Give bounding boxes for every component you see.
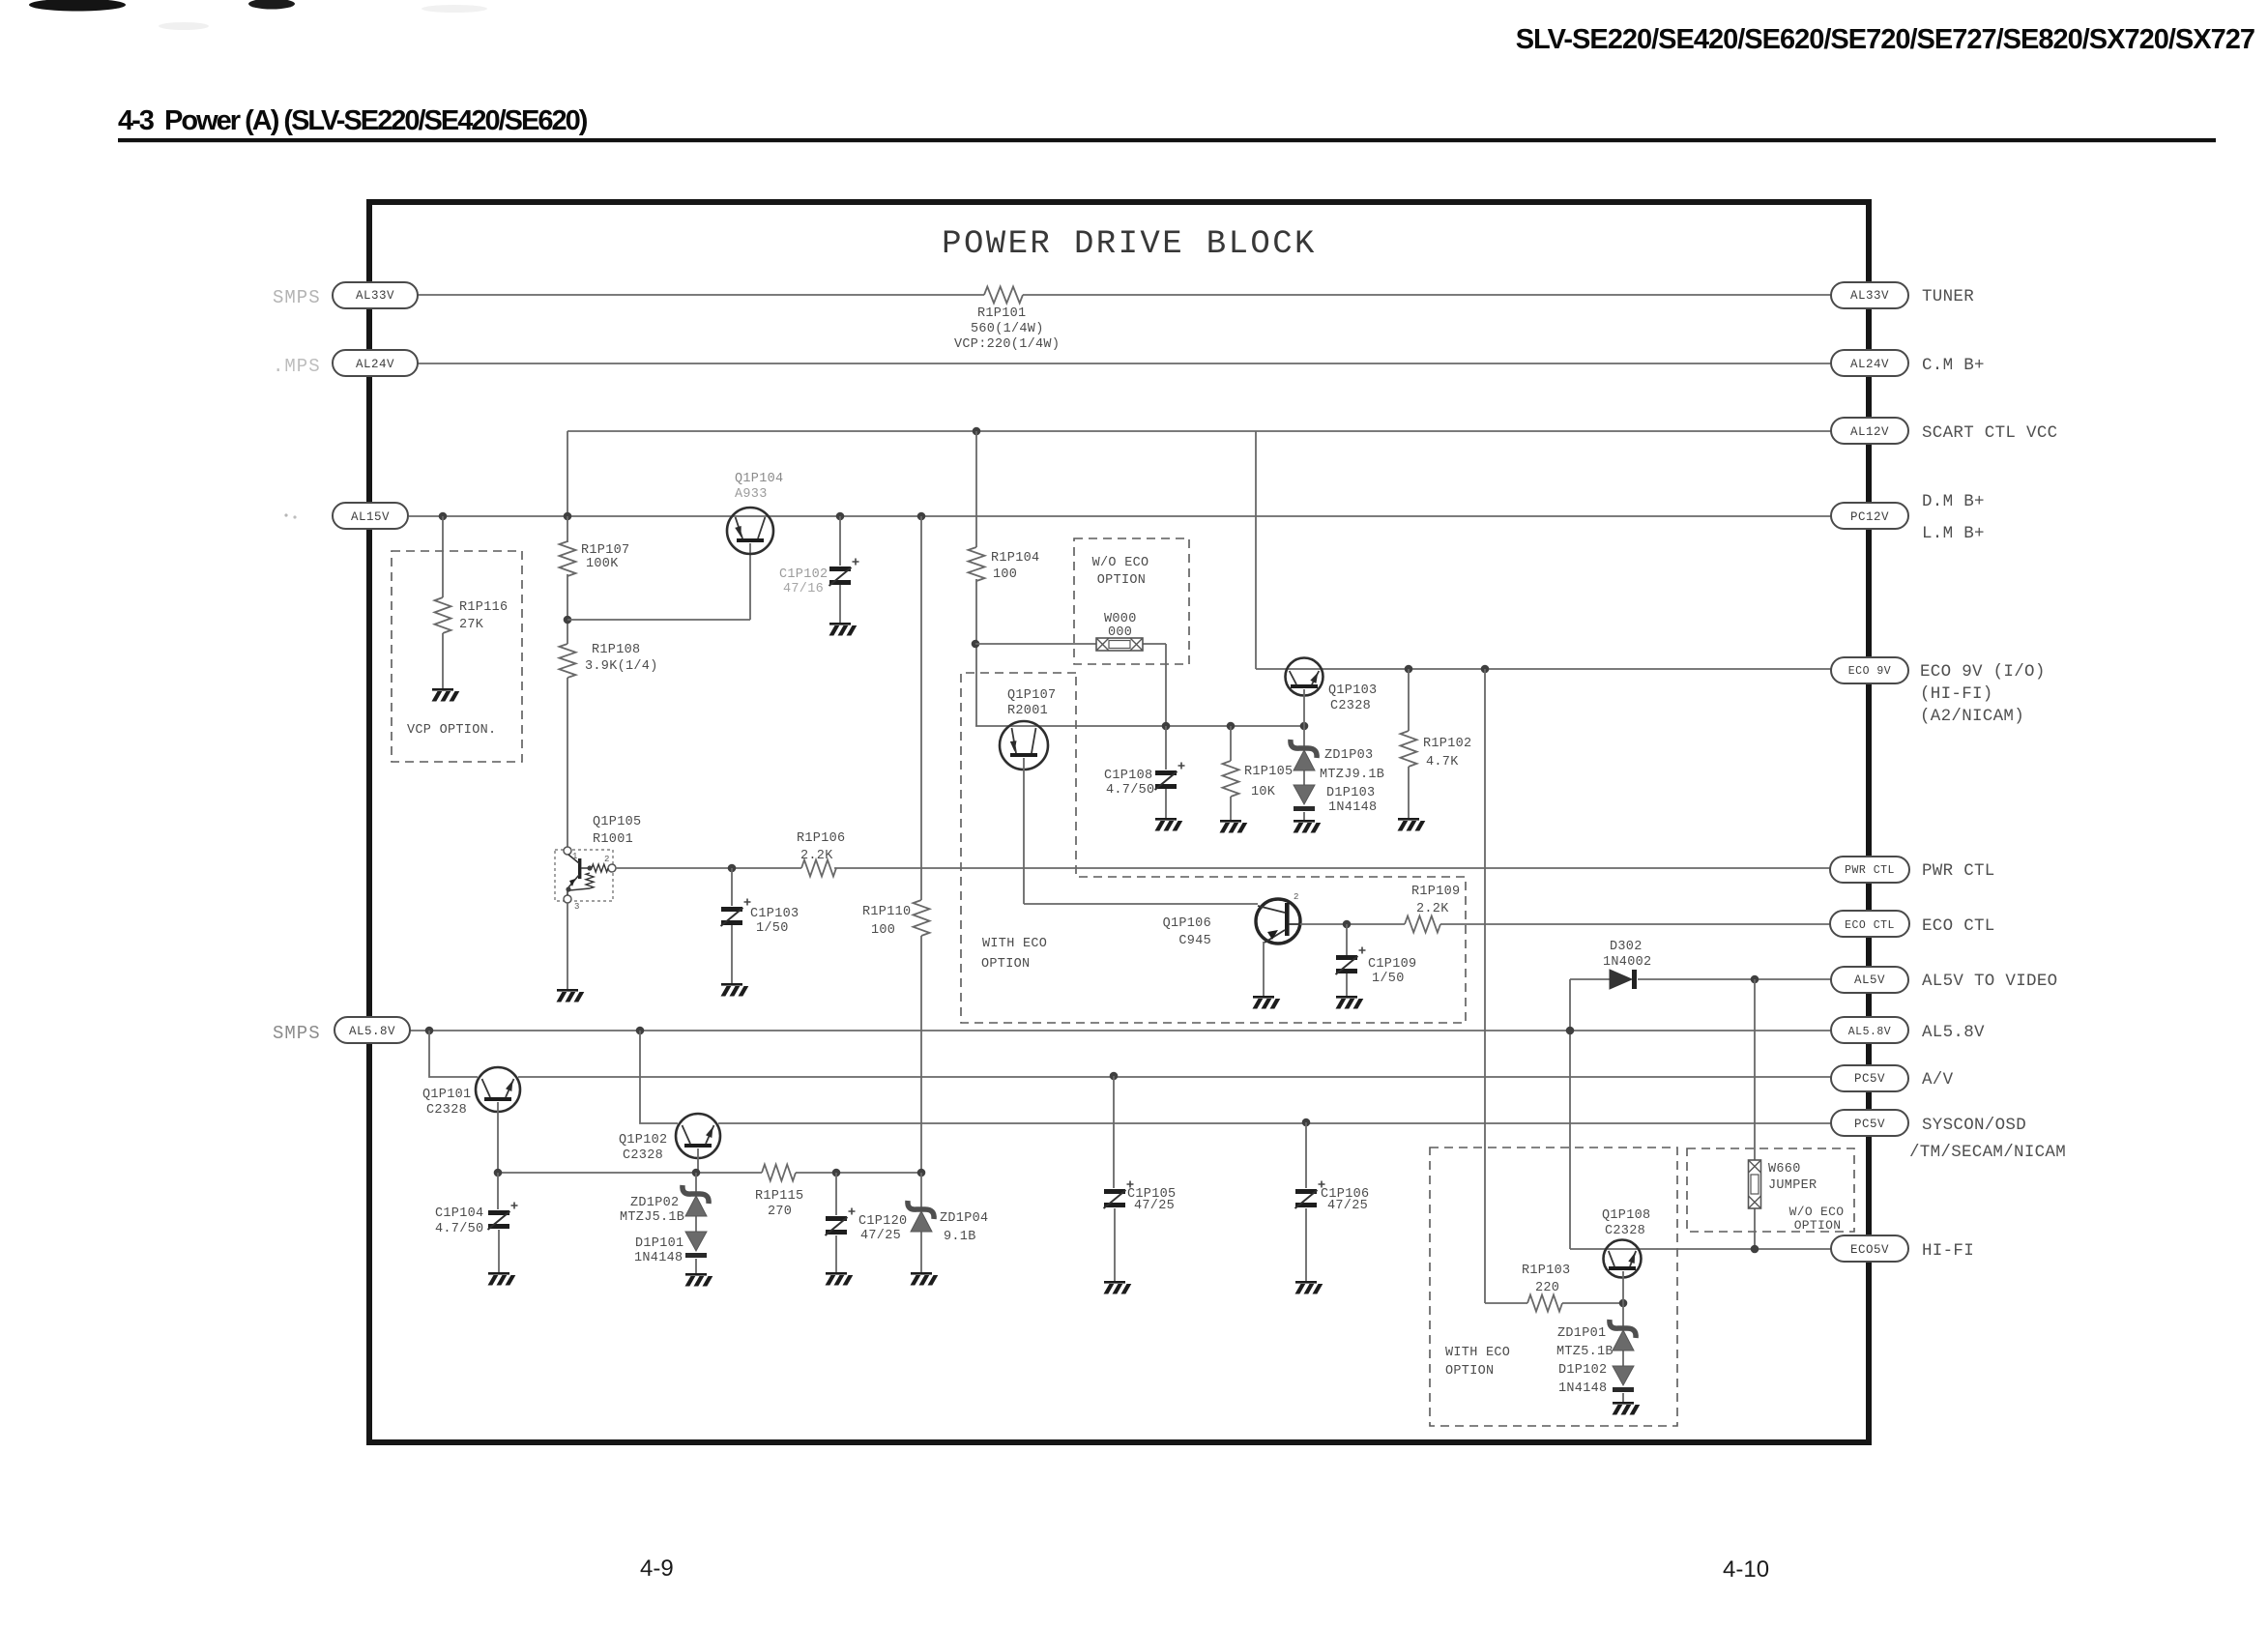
capacitor C1P104 4.7/50 xyxy=(435,1203,518,1237)
svg-text:ZD1P04: ZD1P04 xyxy=(940,1211,988,1226)
connector AL15V (left) xyxy=(333,503,408,529)
svg-text:4.7/50: 4.7/50 xyxy=(1106,783,1154,798)
connector PC5V + A/V xyxy=(1831,1065,1954,1091)
svg-text:R1P108: R1P108 xyxy=(592,643,640,657)
wire ZD1P02 branch xyxy=(695,1173,697,1192)
svg-text:AL5.8V: AL5.8V xyxy=(1848,1026,1891,1038)
wire R1P116 branch xyxy=(442,516,444,597)
svg-text:AL5V: AL5V xyxy=(1854,973,1885,987)
ground (C1P104) xyxy=(488,1272,516,1286)
svg-text:HI-FI: HI-FI xyxy=(1922,1241,1974,1261)
wire SYSCON PC5V row xyxy=(718,1122,1831,1124)
ground (D1P103) xyxy=(1294,820,1322,833)
svg-text:C1P102: C1P102 xyxy=(779,567,828,582)
node AL5.8V junctions xyxy=(425,1027,1575,1035)
transistor Q1P104 (PNP A933) xyxy=(727,472,783,554)
connector AL5.8V (left) xyxy=(334,1017,410,1043)
ground (C1P106) xyxy=(1295,1281,1323,1294)
svg-text:W000: W000 xyxy=(1104,612,1137,626)
svg-text:MTZ5.1B: MTZ5.1B xyxy=(1556,1345,1614,1359)
svg-text:1: 1 xyxy=(572,852,578,861)
svg-text:D1P102: D1P102 xyxy=(1558,1363,1607,1378)
svg-text:A933: A933 xyxy=(735,487,768,502)
svg-text:Q1P101: Q1P101 xyxy=(422,1088,471,1102)
wire Q1P108 base stub xyxy=(1622,1271,1624,1303)
node AL12V junction xyxy=(973,427,981,436)
schematic border frame xyxy=(369,202,1869,1442)
svg-text:WITH ECO: WITH ECO xyxy=(1445,1346,1510,1360)
dashed box W/O ECO OPTION (right) xyxy=(1687,1148,1854,1233)
svg-text:ECO 9V (I/O): ECO 9V (I/O) xyxy=(1920,662,2046,682)
svg-text:AL15V: AL15V xyxy=(351,510,390,524)
svg-text:AL5V TO VIDEO: AL5V TO VIDEO xyxy=(1922,972,2057,991)
wire AL24V rail xyxy=(410,363,1831,364)
svg-text:1N4148: 1N4148 xyxy=(1558,1381,1607,1396)
svg-text:3.9K(1/4): 3.9K(1/4) xyxy=(585,659,658,674)
svg-text:C2328: C2328 xyxy=(1605,1224,1645,1238)
left faint marks (AL15V) xyxy=(284,513,296,518)
wire Q1P101 collector xyxy=(429,1031,478,1077)
svg-text:SYSCON/OSD: SYSCON/OSD xyxy=(1922,1116,2026,1135)
ground (C1P120) xyxy=(826,1272,854,1286)
dashed box VCP OPTION xyxy=(392,551,522,762)
svg-text:4.7/50: 4.7/50 xyxy=(435,1222,483,1236)
svg-text:C1P120: C1P120 xyxy=(858,1214,907,1229)
node SYSCON junction (C1P106) xyxy=(1302,1119,1311,1127)
resistor R1P105 10K xyxy=(1223,761,1294,799)
node Q1P108 base junction xyxy=(1619,1299,1628,1308)
ground (R1P102) xyxy=(1398,818,1426,831)
resistor R1P107 100K xyxy=(560,541,630,576)
svg-text:10K: 10K xyxy=(1251,785,1276,799)
connector AL33V (left) xyxy=(333,282,418,308)
svg-text:MTZJ5.1B: MTZJ5.1B xyxy=(620,1210,684,1225)
connector AL24V (left) xyxy=(333,350,418,376)
wire C1P106 branch xyxy=(1305,1122,1307,1188)
zener ZD1P04 9.1B xyxy=(908,1201,989,1244)
svg-text:AL12V: AL12V xyxy=(1850,425,1889,439)
resistor R1P108 3.9K xyxy=(560,643,658,678)
resistor R1P109 2.2K xyxy=(1405,885,1460,933)
svg-text:C2328: C2328 xyxy=(426,1103,467,1118)
svg-text:R1001: R1001 xyxy=(593,832,633,847)
wire ECO5V row xyxy=(1570,1248,1831,1250)
transistor Q1P103 (NPN C2328) xyxy=(1286,658,1378,714)
header underline rule xyxy=(118,138,2216,142)
svg-text:ZD1P02: ZD1P02 xyxy=(630,1196,679,1210)
diode D1P101 1N4148 xyxy=(634,1232,707,1265)
svg-text:AL33V: AL33V xyxy=(1850,289,1889,303)
svg-text:2.2K: 2.2K xyxy=(800,849,833,863)
svg-text:4-9: 4-9 xyxy=(640,1555,674,1582)
diode D302 1N4002 xyxy=(1603,940,1651,989)
wire AL12V drop to AL15V node xyxy=(567,431,568,516)
transistor Q1P101 (NPN C2328) xyxy=(422,1067,520,1118)
wire C1P102 branch xyxy=(839,516,841,566)
resistor R1P106 2.2K xyxy=(797,831,845,877)
svg-text:(HI-FI): (HI-FI) xyxy=(1920,684,1993,704)
node ECO9V junctions xyxy=(1405,665,1490,674)
wire Q1P105 emitter to ground xyxy=(567,903,568,989)
svg-text:ZD1P03: ZD1P03 xyxy=(1324,748,1373,763)
svg-text:Q1P105: Q1P105 xyxy=(593,815,641,829)
resistor R1P101 xyxy=(954,287,1060,353)
svg-text:Q1P108: Q1P108 xyxy=(1602,1208,1650,1223)
zener ZD1P02 MTZJ5.1B xyxy=(620,1185,709,1225)
node 9V drive junctions xyxy=(1162,722,1309,731)
ground (R1P105) xyxy=(1220,820,1248,833)
svg-text:ECO CTL: ECO CTL xyxy=(1845,919,1895,932)
capacitor C1P106 47/25 xyxy=(1295,1181,1370,1214)
svg-text:560(1/4W): 560(1/4W) xyxy=(971,322,1044,336)
resistor R1P102 4.7K xyxy=(1401,731,1472,770)
svg-text:C1P103: C1P103 xyxy=(750,907,799,921)
capacitor C1P109 1/50 xyxy=(1336,947,1417,987)
capacitor C1P108 4.7/50 xyxy=(1104,763,1185,799)
svg-text:R1P104: R1P104 xyxy=(991,551,1039,566)
svg-text:C.M B+: C.M B+ xyxy=(1922,356,1985,375)
svg-text:R1P110: R1P110 xyxy=(862,905,911,919)
svg-text:Q1P107: Q1P107 xyxy=(1007,688,1056,703)
connector AL24V (right) + C.M B+ xyxy=(1831,350,1985,376)
wire C1P108 branch xyxy=(1165,726,1167,770)
svg-text:D1P103: D1P103 xyxy=(1326,786,1375,800)
svg-text:R1P116: R1P116 xyxy=(459,600,508,615)
svg-text:/TM/SECAM/NICAM: /TM/SECAM/NICAM xyxy=(1909,1143,2066,1162)
transistor Q1P106 (NPN C945) xyxy=(1163,892,1300,948)
svg-text:9.1B: 9.1B xyxy=(944,1230,976,1244)
svg-text:.MPS: .MPS xyxy=(273,356,321,377)
svg-text:PC5V: PC5V xyxy=(1854,1118,1885,1131)
node A/V junction (C1P105) xyxy=(1110,1072,1119,1081)
svg-text:100: 100 xyxy=(993,567,1017,582)
svg-text:W/O ECO: W/O ECO xyxy=(1789,1205,1845,1219)
svg-text:1N4002: 1N4002 xyxy=(1603,955,1651,970)
svg-text:100K: 100K xyxy=(586,557,619,571)
ground (C1P103) xyxy=(721,983,749,997)
wire Q1P106 emitter to ground xyxy=(1263,942,1265,996)
wire C1P104 branch xyxy=(497,1173,499,1209)
node AL5V junction xyxy=(1751,975,1759,984)
svg-text:(A2/NICAM): (A2/NICAM) xyxy=(1920,707,2024,726)
ground (D1P101) xyxy=(685,1273,713,1287)
svg-text:SMPS: SMPS xyxy=(273,287,321,308)
svg-text:ECO CTL: ECO CTL xyxy=(1922,916,1995,936)
svg-text:47/25: 47/25 xyxy=(860,1229,901,1243)
svg-text:A/V: A/V xyxy=(1922,1070,1954,1090)
svg-text:SLV-SE220/SE420/SE620/SE720/SE: SLV-SE220/SE420/SE620/SE720/SE727/SE820/… xyxy=(1516,24,2254,55)
wire base bias row y=1213 xyxy=(498,1172,762,1174)
svg-text:D302: D302 xyxy=(1610,940,1643,954)
svg-text:PC5V: PC5V xyxy=(1854,1072,1885,1086)
svg-text:C945: C945 xyxy=(1178,934,1211,948)
svg-text:R1P105: R1P105 xyxy=(1244,765,1293,779)
svg-text:OPTION: OPTION xyxy=(1445,1364,1494,1379)
ground (C1P102) xyxy=(829,623,858,636)
connector ECO5V + HI-FI xyxy=(1831,1235,1974,1262)
wire Q1P102 collector xyxy=(640,1031,678,1123)
node R1P107/R1P108 junction xyxy=(564,616,572,625)
svg-text:MTZJ9.1B: MTZJ9.1B xyxy=(1320,768,1384,782)
svg-text:AL5.8V: AL5.8V xyxy=(349,1025,395,1038)
wire R1P104 column xyxy=(975,431,977,547)
wire R1P102 branch xyxy=(1408,669,1410,731)
connector AL5V + AL5V TO VIDEO xyxy=(1831,967,2057,993)
svg-text:1/50: 1/50 xyxy=(756,921,789,936)
svg-text:R1P109: R1P109 xyxy=(1411,885,1460,899)
wire Q1P102 base stub xyxy=(697,1148,699,1173)
zener ZD1P01 MTZ5.1B xyxy=(1556,1320,1636,1359)
svg-text:VCP OPTION.: VCP OPTION. xyxy=(407,723,496,738)
node PWR CTL junction (C1P103) xyxy=(728,864,737,873)
ground (ZD1P04) xyxy=(911,1272,939,1286)
wire ZD1P04 branch xyxy=(920,1173,922,1207)
svg-text:AL24V: AL24V xyxy=(1850,358,1889,371)
ground (R1P116) xyxy=(432,688,460,702)
resistor R1P110 100 xyxy=(862,900,930,938)
svg-text:W/O ECO: W/O ECO xyxy=(1092,556,1149,570)
wire R1P107/R1P108 column xyxy=(567,516,568,542)
svg-text:2: 2 xyxy=(1294,892,1299,902)
dashed box WITH ECO OPTION (middle, L-shaped) xyxy=(961,673,1466,1023)
svg-text:OPTION: OPTION xyxy=(981,957,1030,972)
svg-text:OPTION: OPTION xyxy=(1794,1218,1842,1233)
svg-text:SMPS: SMPS xyxy=(273,1023,321,1044)
svg-text:PWR CTL: PWR CTL xyxy=(1922,861,1995,881)
svg-text:R1P101: R1P101 xyxy=(977,306,1026,321)
svg-text:R1P115: R1P115 xyxy=(755,1189,803,1204)
svg-text:4-10: 4-10 xyxy=(1723,1556,1769,1583)
wire Q1P103 base stub xyxy=(1303,689,1305,726)
svg-text:R1P103: R1P103 xyxy=(1522,1264,1570,1278)
wire AL12V rail xyxy=(567,430,1831,432)
svg-text:C1P104: C1P104 xyxy=(435,1206,483,1221)
svg-text:Q1P106: Q1P106 xyxy=(1163,916,1211,931)
transistor Q1P102 (NPN C2328) xyxy=(619,1114,720,1163)
transistor Q1P108 (NPN C2328) xyxy=(1602,1208,1650,1278)
node ECO CTL junction (C1P109) xyxy=(1343,920,1352,929)
wire C1P120 branch xyxy=(835,1173,837,1215)
connector PC5V + SYSCON/OSD xyxy=(1831,1110,2066,1162)
svg-text:AL24V: AL24V xyxy=(356,358,394,371)
svg-text:VCP:220(1/4W): VCP:220(1/4W) xyxy=(954,337,1060,352)
node AL15V junctions xyxy=(439,512,926,521)
svg-text:R2001: R2001 xyxy=(1007,704,1048,718)
svg-text:R1P106: R1P106 xyxy=(797,831,845,846)
svg-text:2.2K: 2.2K xyxy=(1416,902,1449,916)
diode D1P102 1N4148 xyxy=(1558,1363,1634,1396)
jumper W660 xyxy=(1749,1160,1817,1208)
svg-text:47/25: 47/25 xyxy=(1134,1199,1175,1213)
svg-text:TUNER: TUNER xyxy=(1922,287,1974,306)
wire AL15V rail xyxy=(409,515,1831,517)
ground (C1P109) xyxy=(1336,996,1364,1009)
svg-text:1N4148: 1N4148 xyxy=(634,1251,683,1265)
svg-text:4.7K: 4.7K xyxy=(1426,755,1459,770)
svg-text:4-3 Power (A) (SLV-SE220/SE42: 4-3 Power (A) (SLV-SE220/SE420/SE620) xyxy=(118,105,588,136)
wire C1P105 branch xyxy=(1113,1076,1115,1188)
svg-text:47/25: 47/25 xyxy=(1327,1199,1368,1213)
wire W660 column xyxy=(1754,979,1756,1160)
svg-text:POWER DRIVE BLOCK: POWER DRIVE BLOCK xyxy=(942,226,1317,263)
node ECO5V junction xyxy=(1751,1245,1759,1254)
node base bias junctions xyxy=(494,1169,926,1177)
connector ECO 9V + labels xyxy=(1831,657,2046,726)
ground (C1P105) xyxy=(1104,1281,1132,1294)
svg-text:R1P107: R1P107 xyxy=(581,543,629,558)
wire 9V drive row xyxy=(975,725,1304,727)
svg-text:Q1P104: Q1P104 xyxy=(735,472,783,486)
wire PWR CTL row xyxy=(616,867,801,869)
svg-text:270: 270 xyxy=(768,1205,792,1219)
wire ECO9V to R1P103 column xyxy=(1485,669,1527,1303)
wire R1P110 column xyxy=(920,516,922,900)
wire Q1P104 base link xyxy=(567,543,750,620)
svg-text:C2328: C2328 xyxy=(623,1148,663,1163)
svg-text:R1P102: R1P102 xyxy=(1423,737,1471,751)
svg-text:W660: W660 xyxy=(1768,1162,1801,1177)
svg-text:L.M B+: L.M B+ xyxy=(1922,524,1985,543)
svg-text:C2328: C2328 xyxy=(1330,699,1371,713)
ground (Q1P105) xyxy=(557,989,585,1002)
svg-text:PC12V: PC12V xyxy=(1850,510,1889,524)
svg-text:JUMPER: JUMPER xyxy=(1768,1178,1817,1193)
scan artifact smudges xyxy=(29,0,487,30)
svg-text:Q1P102: Q1P102 xyxy=(619,1133,667,1148)
connector ECO CTL xyxy=(1830,911,1995,937)
capacitor C1P120 47/25 xyxy=(826,1208,908,1244)
svg-text:C1P109: C1P109 xyxy=(1368,957,1416,972)
ground (Q1P106) xyxy=(1253,996,1281,1009)
wire AL5.8V rail xyxy=(410,1030,1831,1031)
wire Q1P107 base to Q1P106 xyxy=(1024,758,1258,904)
svg-text:AL5.8V: AL5.8V xyxy=(1922,1023,1985,1042)
wire C1P109 branch xyxy=(1346,924,1348,955)
wire ECO CTL row xyxy=(1300,923,1405,925)
wire R1P105 branch xyxy=(1230,726,1232,761)
transistor Q1P107 (PNP R2001) xyxy=(1000,688,1056,770)
capacitor C1P103 1/50 xyxy=(721,899,800,937)
connector AL12V + SCART CTL VCC xyxy=(1831,418,2057,444)
connector PC12V + D.M B+/L.M B+ xyxy=(1831,492,1985,543)
wire A/V PC5V row xyxy=(518,1076,1831,1078)
connector AL33V (right) + TUNER xyxy=(1831,282,1974,308)
node R1P104 bottom junction xyxy=(972,640,980,649)
wire ECO 9V rail xyxy=(1255,431,1257,669)
connector PWR CTL xyxy=(1830,857,1995,883)
svg-text:SCART CTL VCC: SCART CTL VCC xyxy=(1922,423,2057,443)
svg-text:1/50: 1/50 xyxy=(1372,972,1405,986)
resistor R1P116 27K xyxy=(435,597,509,633)
resistor R1P115 270 xyxy=(755,1165,803,1220)
wire ZD1P01 branch xyxy=(1622,1303,1624,1326)
capacitor C1P105 47/25 xyxy=(1104,1181,1177,1214)
svg-text:Q1P103: Q1P103 xyxy=(1328,683,1377,698)
wire ZD1P03 branch xyxy=(1303,726,1305,746)
svg-text:OPTION: OPTION xyxy=(1097,573,1146,588)
wire W000 jumper branch xyxy=(975,643,1096,645)
svg-text:47/16: 47/16 xyxy=(783,582,824,596)
svg-text:2: 2 xyxy=(604,855,610,864)
zener ZD1P03 MTZJ9.1B xyxy=(1291,740,1384,782)
ground (C1P108) xyxy=(1155,818,1183,831)
svg-text:WITH ECO: WITH ECO xyxy=(982,937,1047,951)
svg-text:D1P101: D1P101 xyxy=(635,1236,683,1251)
jumper W000 xyxy=(1096,612,1143,651)
svg-text:000: 000 xyxy=(1108,625,1132,640)
wire Q1P101 base stub xyxy=(497,1102,499,1173)
svg-text:ECO 9V: ECO 9V xyxy=(1848,665,1891,678)
svg-text:ZD1P01: ZD1P01 xyxy=(1557,1326,1606,1341)
ground (D1P102) xyxy=(1613,1402,1641,1415)
resistor R1P104 100 xyxy=(969,547,1040,582)
connector AL5.8V (right) xyxy=(1831,1017,1985,1043)
dashed box WITH ECO OPTION (bottom right, HI-FI) xyxy=(1430,1148,1677,1426)
transistor Q1P105 (R1001 digital) xyxy=(555,815,641,912)
svg-text:100: 100 xyxy=(871,923,895,938)
svg-text:ECO5V: ECO5V xyxy=(1850,1243,1889,1257)
svg-text:C1P108: C1P108 xyxy=(1104,769,1152,783)
svg-text:1N4148: 1N4148 xyxy=(1328,800,1377,815)
svg-text:3: 3 xyxy=(574,902,580,912)
svg-text:PWR CTL: PWR CTL xyxy=(1845,864,1895,877)
resistor R1P103 220 xyxy=(1522,1264,1570,1312)
svg-text:220: 220 xyxy=(1535,1281,1559,1295)
dashed box W/O ECO OPTION (top middle) xyxy=(1074,538,1189,664)
wire C1P103 branch xyxy=(731,868,733,906)
svg-text:27K: 27K xyxy=(459,618,484,632)
capacitor C1P102 xyxy=(779,559,859,597)
wire AL33V rail with resistor gap xyxy=(410,294,984,296)
svg-text:D.M B+: D.M B+ xyxy=(1922,492,1985,511)
diode D1P103 1N4148 xyxy=(1294,785,1377,815)
wire AL5V row and drop xyxy=(1570,978,1610,980)
svg-text:AL33V: AL33V xyxy=(356,289,394,303)
